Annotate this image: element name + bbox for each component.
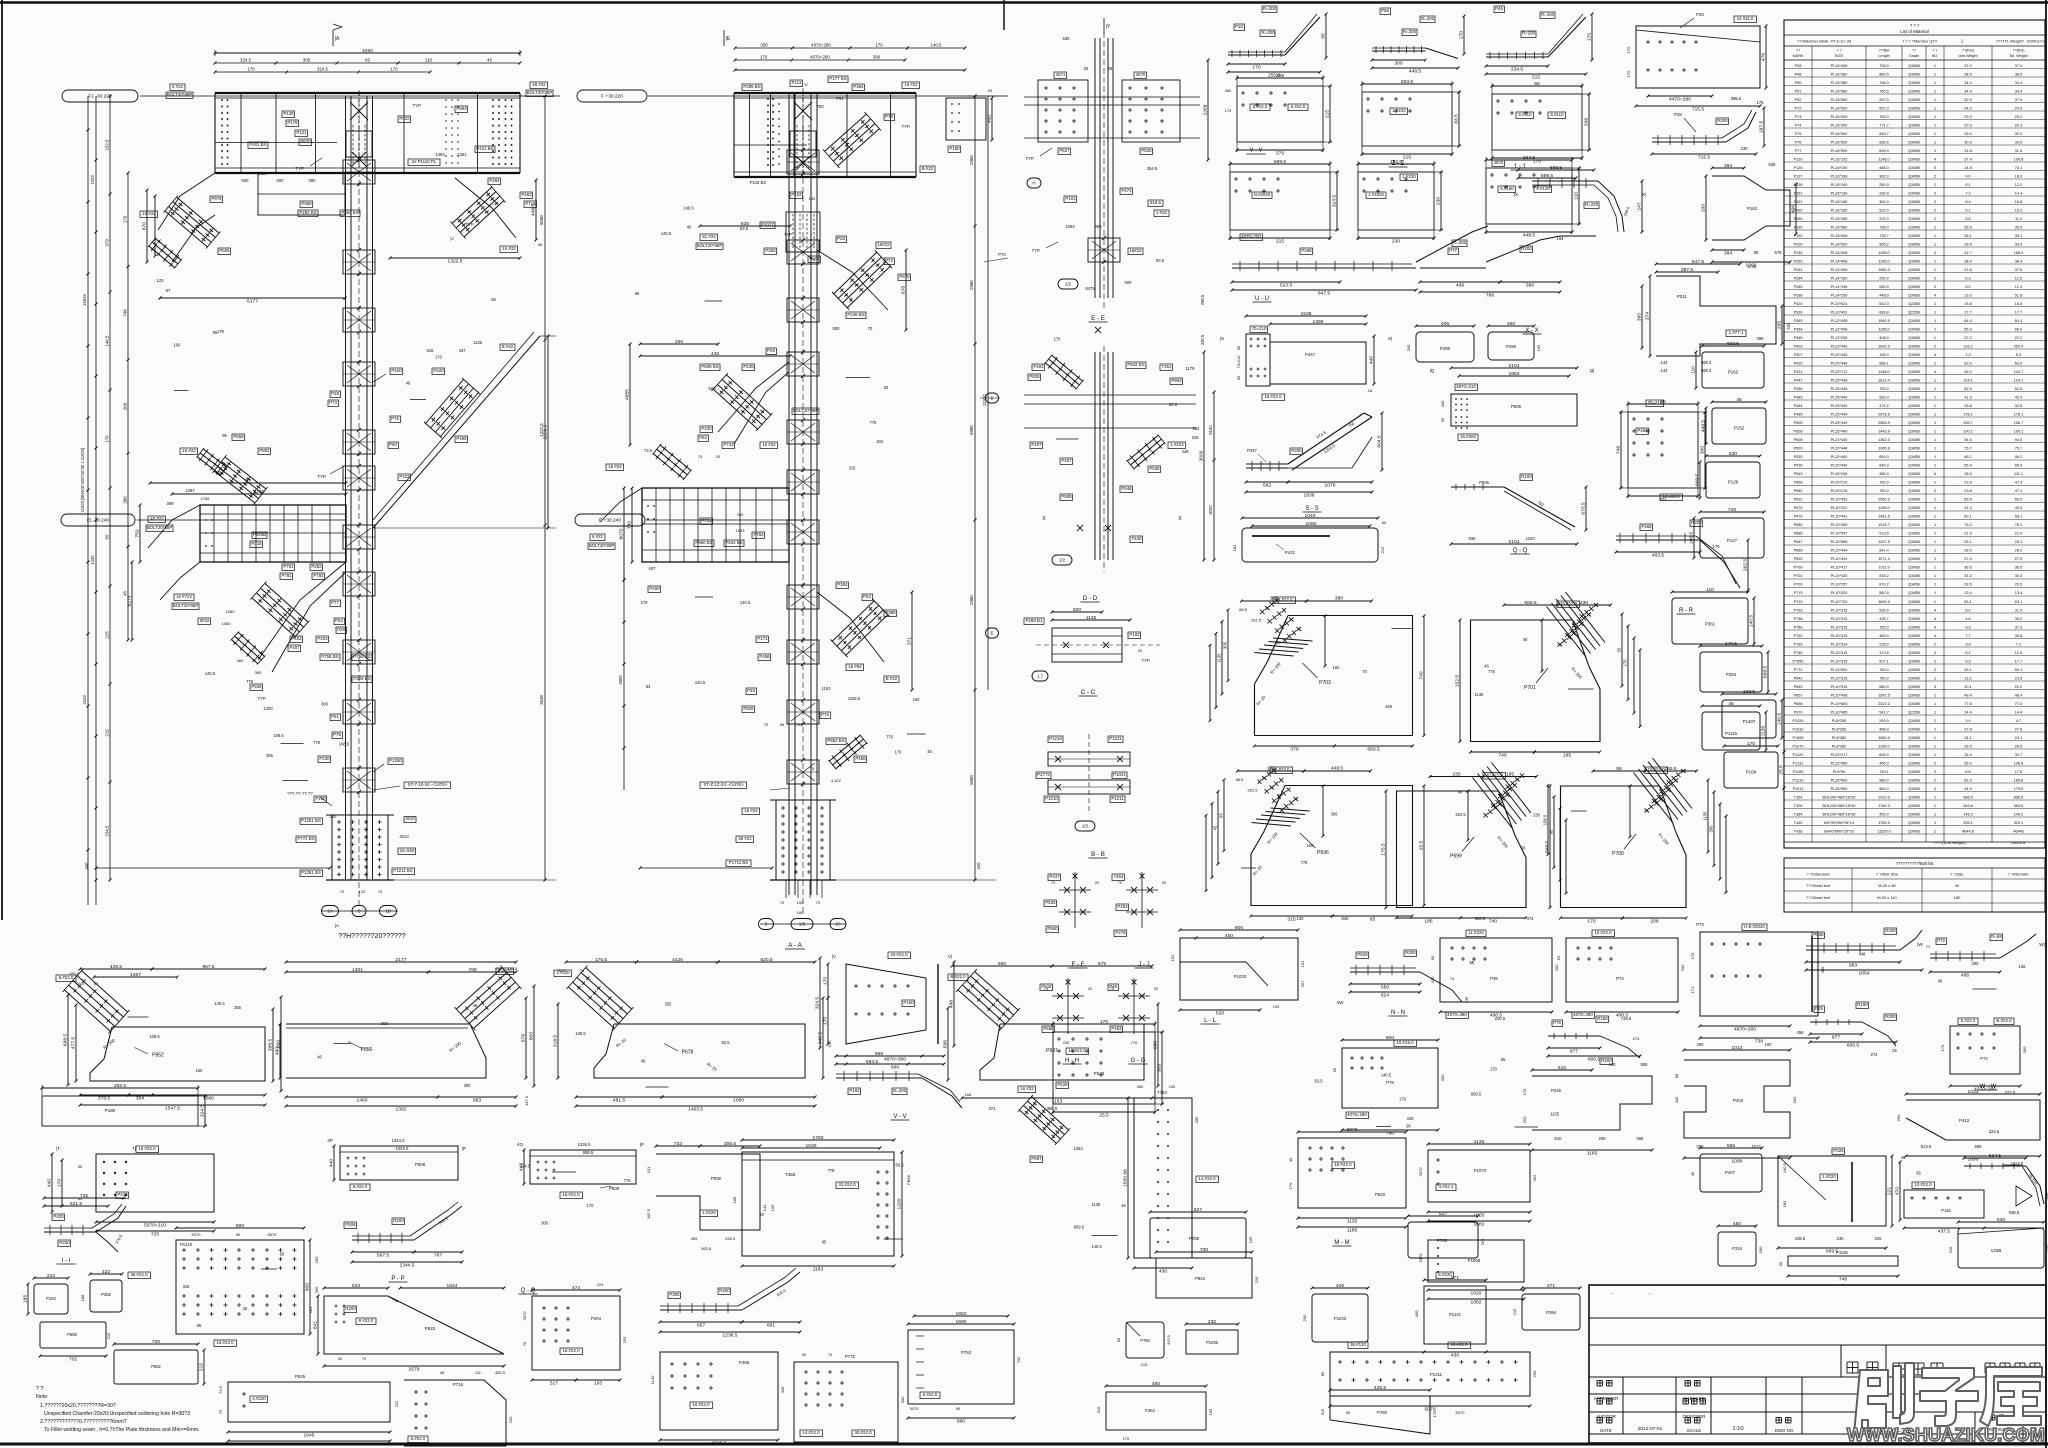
svg-text:P605: P605: [219, 248, 230, 253]
svg-text:P285 BS: P285 BS: [743, 84, 760, 89]
svg-text:1780: 1780: [254, 489, 265, 495]
svg-text:329.1: 329.1: [2014, 821, 2024, 825]
svg-text:31.9: 31.9: [2015, 609, 2022, 613]
svg-text:P407: P407: [1725, 1170, 1736, 1175]
svg-text:1: 1: [1934, 583, 1936, 587]
svg-text:845.5: 845.5: [818, 1032, 824, 1045]
svg-text:2: 2: [1934, 183, 1936, 187]
svg-text:100: 100: [1765, 1042, 1773, 1047]
svg-text:Q345B: Q345B: [1908, 438, 1920, 442]
P180 wide plate: [42, 1096, 198, 1126]
svg-text:305: 305: [303, 58, 311, 63]
svg-text:DATE: DATE: [1600, 1428, 1611, 1433]
svg-text:P1218: P1218: [1049, 736, 1062, 741]
svg-text:170: 170: [895, 750, 903, 755]
svg-text:PL20*215: PL20*215: [1831, 489, 1848, 493]
svg-text:Q345B: Q345B: [1908, 702, 1920, 706]
svg-text:65: 65: [1617, 647, 1622, 652]
svg-text:P690: P690: [1794, 557, 1803, 561]
svg-text:P163: P163: [1747, 206, 1758, 211]
svg-text:BOLT20*88P: BOLT20*88P: [589, 543, 615, 548]
svg-text:4070: 4070: [1136, 72, 1146, 77]
svg-text:P978: P978: [211, 196, 222, 201]
svg-text:16.#200: 16.#200: [1460, 434, 1476, 439]
svg-text:P763: P763: [1794, 643, 1803, 647]
svg-text:1918.7: 1918.7: [1878, 523, 1890, 527]
svg-text:P762: P762: [1794, 634, 1803, 638]
svg-text:1547.5: 1547.5: [165, 1106, 180, 1112]
svg-text:65: 65: [105, 534, 110, 539]
svg-text:PL16*380: PL16*380: [1831, 226, 1848, 230]
svg-text:215: 215: [1325, 110, 1331, 118]
svg-text:P852: P852: [152, 1053, 164, 1059]
svg-text:230: 230: [1392, 239, 1400, 245]
svg-text:253: 253: [622, 1336, 627, 1343]
svg-text:T364: T364: [1794, 813, 1803, 817]
svg-text:46: 46: [1484, 664, 1489, 669]
svg-text:27.9: 27.9: [1964, 557, 1971, 561]
svg-text:46: 46: [538, 242, 543, 247]
svg-text:448.5: 448.5: [1409, 69, 1422, 75]
svg-text:P495: P495: [456, 436, 467, 441]
svg-text:435.7: 435.7: [1879, 617, 1889, 621]
svg-text:90: 90: [236, 1232, 241, 1237]
svg-text:222: 222: [47, 1273, 55, 1279]
svg-text:5.#110: 5.#110: [1550, 112, 1564, 117]
svg-text:95: 95: [1549, 829, 1554, 834]
S-S view: [1246, 463, 1288, 465]
svg-text:1165.0: 1165.0: [1878, 745, 1889, 749]
svg-text:??H??????20??????: ??H??????20??????: [338, 933, 405, 940]
svg-text:R200: R200: [1521, 246, 1532, 251]
svg-text:Q345B: Q345B: [1908, 64, 1920, 68]
parts list table: [1784, 20, 2045, 848]
svg-text:16.#22.0: 16.#22.0: [216, 1340, 234, 1345]
svg-text:P1131: P1131: [1793, 762, 1804, 766]
svg-text:P320: P320: [1794, 302, 1803, 306]
svg-text:??: ??: [1796, 49, 1800, 53]
svg-text:31.3: 31.3: [1964, 506, 1971, 510]
svg-text:360: 360: [1637, 313, 1643, 321]
svg-text:215: 215: [1141, 1362, 1148, 1367]
svg-text:362.0: 362.0: [1879, 175, 1889, 179]
svg-text:P942 BS: P942 BS: [725, 540, 742, 545]
svg-text:170: 170: [1225, 108, 1232, 113]
svg-text:T361: T361: [1161, 364, 1172, 369]
svg-text:3070: 3070: [522, 1311, 527, 1321]
svg-text:P58: P58: [1381, 8, 1389, 13]
svg-text:34.4: 34.4: [2015, 81, 2022, 85]
svg-text:P73: P73: [1795, 115, 1802, 119]
svg-text:262.5: 262.5: [1743, 559, 1749, 572]
svg-text:1323: 1323: [90, 175, 95, 185]
svg-text:Q345B: Q345B: [1908, 200, 1920, 204]
svg-text:P772 BS: P772 BS: [297, 836, 314, 841]
elev1 top-left diagonal braces: [177, 197, 220, 233]
svg-text:? ?: ? ?: [1836, 49, 1841, 53]
svg-text:1A: 1A: [327, 909, 334, 914]
svg-text:16 #22: 16 #22: [142, 211, 156, 216]
svg-text:983: 983: [473, 1098, 481, 1104]
svg-text:736.0: 736.0: [1879, 226, 1889, 230]
svg-text:4.#220: 4.#220: [252, 1396, 266, 1401]
svg-text:P465: P465: [739, 1360, 750, 1365]
svg-text:??(KG): ??(KG): [1962, 49, 1974, 53]
svg-text:1760.0: 1760.0: [1878, 821, 1890, 825]
svg-text:35.0: 35.0: [1964, 762, 1971, 766]
svg-text:S|: S|: [1388, 336, 1392, 341]
svg-text:4: 4: [1934, 251, 1936, 255]
svg-text:2: 2: [1934, 762, 1936, 766]
svg-text:P785: P785: [1189, 1236, 1200, 1241]
svg-text:669.5: 669.5: [1763, 666, 1769, 679]
svg-text:5: 5: [1934, 166, 1936, 170]
svg-text:P753: P753: [1794, 609, 1803, 613]
svg-text:11.8: 11.8: [1964, 677, 1971, 681]
svg-text:144: 144: [762, 1204, 767, 1211]
svg-text:? ?/Qty.: ? ?/Qty.: [1950, 872, 1964, 877]
svg-text:? ?/Bolt Size: ? ?/Bolt Size: [1876, 872, 1899, 877]
svg-text:Q345B: Q345B: [1908, 762, 1920, 766]
svg-text:1060.0: 1060.0: [1878, 319, 1890, 323]
svg-text:1: 1: [1934, 532, 1936, 536]
svg-text:762.0: 762.0: [1879, 626, 1889, 630]
O-O bent piece: [660, 1309, 742, 1311]
svg-text:P421 BS: P421 BS: [476, 146, 493, 151]
svg-text:10.#22.0: 10.#22.0: [1914, 1182, 1932, 1187]
svg-text:P701: P701: [1524, 685, 1536, 691]
svg-text:25.5: 25.5: [1779, 765, 1785, 775]
svg-text:185: 185: [1424, 919, 1432, 925]
svg-text:P420: P420: [701, 426, 712, 431]
svg-text:520: 520: [1216, 1011, 1224, 1017]
svg-text:1: 1: [1934, 702, 1936, 706]
elevation view 1 - column XT-Z-1C-34: [62, 90, 138, 102]
svg-text:20: 20: [1154, 987, 1158, 991]
svg-text:PL16*165: PL16*165: [1831, 209, 1848, 213]
svg-text:29.3: 29.3: [1964, 115, 1971, 119]
svg-text:P180: P180: [949, 146, 960, 151]
svg-text:82.9: 82.9: [1964, 779, 1971, 783]
svg-text:470: 470: [1430, 976, 1435, 983]
svg-text:40: 40: [802, 1352, 807, 1357]
svg-text:215: 215: [105, 729, 110, 737]
svg-text:PB46: PB46: [906, 1174, 911, 1185]
svg-text:2: 2: [1934, 668, 1936, 672]
svg-text:5.3: 5.3: [2016, 353, 2021, 357]
svg-text:16 #22: 16 #22: [744, 808, 758, 813]
svg-text:224: 224: [597, 1282, 604, 1287]
svg-text:67: 67: [166, 288, 171, 293]
svg-text:235.0: 235.0: [1879, 643, 1889, 647]
svg-text:105.8: 105.8: [2014, 762, 2024, 766]
svg-text:Q345B: Q345B: [1908, 277, 1920, 281]
elev1 lower frame lines: [96, 867, 330, 869]
svg-text:P407: P407: [1031, 442, 1042, 447]
svg-text:P509: P509: [609, 1186, 620, 1191]
svg-text:448.0: 448.0: [1879, 294, 1889, 298]
svg-text:P758: P758: [1794, 617, 1803, 621]
svg-text:800.5: 800.5: [1847, 1043, 1860, 1049]
svg-text:370.8: 370.8: [1879, 651, 1889, 655]
svg-text:P315: P315: [251, 541, 262, 546]
svg-text:775: 775: [886, 735, 894, 740]
svg-text:1: 1: [1934, 336, 1936, 340]
svg-text:623: 623: [352, 1283, 360, 1289]
svg-text:P506: P506: [743, 706, 754, 711]
svg-text:P28: P28: [337, 627, 345, 632]
svg-text:40 #22: 40 #22: [150, 516, 164, 521]
svg-text:PL10*455: PL10*455: [1831, 523, 1848, 527]
svg-text:P284: P284: [1794, 277, 1803, 281]
svg-text:1: 1: [1934, 694, 1936, 698]
svg-text:38.5: 38.5: [1964, 73, 1971, 77]
svg-text:4: 4: [1934, 158, 1936, 162]
svg-text:250: 250: [1522, 1116, 1527, 1123]
svg-text:34.4: 34.4: [2015, 90, 2022, 94]
svg-text:379: 379: [1290, 747, 1298, 753]
F-F J-J star sections: [1074, 872, 1076, 928]
svg-text:153.5: 153.5: [69, 971, 80, 976]
svg-text:P420: P420: [53, 1214, 64, 1219]
svg-text:PL12*408: PL12*408: [1831, 328, 1848, 332]
svg-text:527.1: 527.1: [1879, 660, 1889, 664]
svg-text:274: 274: [1633, 1036, 1640, 1041]
svg-text:124.1: 124.1: [1963, 379, 1973, 383]
svg-text:1: 1: [1934, 813, 1936, 817]
svg-text:1344.5: 1344.5: [392, 1138, 405, 1143]
svg-text:16 #722: 16 #722: [176, 594, 192, 599]
svg-text:1080: 1080: [226, 609, 236, 614]
svg-text:527: 527: [1194, 1207, 1202, 1213]
svg-text:18.#22.0: 18.#22.0: [1264, 394, 1282, 399]
svg-text:P1210: P1210: [1793, 779, 1804, 783]
svg-text:558: 558: [1975, 1144, 1983, 1149]
svg-text:P505: P505: [1794, 421, 1803, 425]
svg-text:90: 90: [956, 1406, 961, 1411]
svg-text:540: 540: [1342, 916, 1350, 921]
svg-text:686.5: 686.5: [1963, 796, 1973, 800]
svg-text:440: 440: [84, 862, 89, 870]
svg-text:P731: P731: [701, 518, 712, 523]
svg-text:300: 300: [1820, 966, 1825, 973]
svg-text:16.#22.0: 16.#22.0: [1662, 494, 1680, 499]
svg-text:1040: 1040: [1305, 513, 1316, 519]
svg-text:725: 725: [151, 1232, 159, 1238]
svg-text:PL16*165: PL16*165: [1831, 217, 1848, 221]
svg-text:P1030: P1030: [1234, 974, 1247, 979]
svg-text:1 - 1: 1 - 1: [1514, 164, 1527, 170]
svg-text:635: 635: [1769, 162, 1777, 167]
svg-text:1460: 1460: [357, 1098, 368, 1104]
P753 plate: [908, 1330, 1014, 1404]
svg-text:877: 877: [1832, 1035, 1840, 1041]
svg-text:63.1: 63.1: [2015, 600, 2022, 604]
svg-text:Q345B: Q345B: [1908, 362, 1920, 366]
svg-text:PL16*300: PL16*300: [1831, 243, 1848, 247]
svg-text:Q345B: Q345B: [1908, 149, 1920, 153]
svg-text:555: 555: [1637, 1136, 1645, 1141]
svg-text:1: 1: [1934, 557, 1936, 561]
svg-text:P458: P458: [1641, 524, 1652, 529]
svg-text:10603.8: 10603.8: [2011, 840, 2026, 845]
svg-text:668: 668: [875, 1051, 883, 1057]
svg-text:28.0: 28.0: [2015, 549, 2022, 553]
svg-text:1: 1: [1934, 149, 1936, 153]
svg-text:274: 274: [1871, 1052, 1879, 1057]
svg-text:P765b: P765b: [1793, 660, 1804, 664]
svg-text:XT-7-10-34 -<1476>: XT-7-10-34 -<1476>: [408, 782, 448, 787]
svg-text:1135: 1135: [1703, 811, 1708, 821]
svg-text:1: 1: [1934, 396, 1936, 400]
svg-text:51.8: 51.8: [2015, 294, 2022, 298]
svg-text:380.5: 380.5: [1475, 916, 1486, 921]
svg-text:290: 290: [1406, 344, 1411, 351]
svg-text:588.1: 588.1: [1879, 362, 1889, 366]
svg-text:4855: 4855: [625, 389, 631, 400]
svg-text:P75: P75: [333, 732, 341, 737]
svg-text:46: 46: [1523, 637, 1528, 642]
svg-text:900: 900: [529, 1032, 535, 1040]
svg-text:860.0: 860.0: [1879, 787, 1889, 791]
svg-text:R=200: R=200: [1263, 6, 1277, 11]
svg-text:45: 45: [1690, 1171, 1695, 1176]
svg-text:P72: P72: [1795, 107, 1802, 111]
svg-text:B #22: B #22: [502, 344, 514, 349]
svg-text:P622: P622: [425, 1326, 436, 1331]
svg-text:P402: P402: [291, 636, 302, 641]
svg-text:1065.8: 1065.8: [1878, 447, 1890, 451]
svg-text:PL10*315: PL10*315: [1831, 634, 1848, 638]
svg-text:215: 215: [1512, 1308, 1517, 1315]
elev2 column base: [776, 800, 830, 880]
svg-text:P560: P560: [1794, 472, 1803, 476]
svg-text:93: 93: [884, 385, 889, 390]
svg-text:32.9: 32.9: [1964, 98, 1971, 102]
svg-text:5560: 5560: [969, 775, 974, 785]
svg-text:1: 1: [1934, 328, 1936, 332]
svg-text:371: 371: [907, 637, 913, 645]
svg-text:Q345B: Q345B: [1908, 175, 1920, 179]
svg-text:1: 1: [1934, 753, 1936, 757]
svg-text:108.5: 108.5: [1743, 689, 1756, 695]
svg-text:B.#22.0: B.#22.0: [1996, 1018, 2012, 1023]
svg-text:43a: 43a: [495, 966, 502, 971]
svg-text:38.4: 38.4: [1964, 260, 1971, 264]
svg-text:PL10*600: PL10*600: [1831, 702, 1848, 706]
svg-text:1.#223: 1.#223: [1170, 442, 1184, 447]
svg-text:2: 2: [1934, 277, 1936, 281]
svg-text:760: 760: [737, 512, 744, 517]
svg-text:330: 330: [1680, 964, 1685, 971]
svg-text:Grade: Grade: [1909, 54, 1919, 58]
svg-text:PL22*450: PL22*450: [1831, 762, 1848, 766]
svg-text:P1211: P1211: [1111, 796, 1124, 801]
svg-text:PL16*199: PL16*199: [1831, 192, 1848, 196]
P785 P363 plates near title: [1150, 1218, 1246, 1258]
svg-text:1: 1: [1934, 319, 1936, 323]
svg-text:865.2: 865.2: [1879, 243, 1889, 247]
svg-text:P842 BS: P842 BS: [1127, 362, 1144, 367]
svg-text:1/2: 1/2: [799, 922, 806, 927]
svg-text:300: 300: [2022, 1046, 2027, 1053]
svg-text:Length: Length: [1878, 54, 1889, 58]
svg-text:2: 2: [1934, 779, 1936, 783]
svg-text:P529: P529: [1794, 447, 1803, 451]
svg-text:988.5: 988.5: [583, 1150, 594, 1155]
svg-text:Q345B: Q345B: [1908, 787, 1920, 791]
svg-text:PL14*196: PL14*196: [1831, 285, 1848, 289]
svg-text:PL25*448: PL25*448: [1831, 379, 1848, 383]
svg-text:123: 123: [157, 278, 165, 283]
svg-text:P28: P28: [837, 236, 845, 241]
svg-text:|E: |E: [726, 36, 731, 42]
svg-text:P77: P77: [1795, 149, 1802, 153]
svg-text:562: 562: [1263, 483, 1271, 489]
svg-text:P407: P407: [1061, 458, 1072, 463]
svg-text:P558: P558: [67, 1332, 77, 1337]
svg-text:P1068: P1068: [1468, 1258, 1481, 1263]
svg-text:PL10*441: PL10*441: [1831, 515, 1848, 519]
svg-text:R=200: R=200: [1522, 31, 1536, 36]
svg-text:31.8: 31.8: [1964, 149, 1971, 153]
svg-text:1020: 1020: [1471, 1291, 1482, 1297]
svg-text:6.#22.0: 6.#22.0: [923, 1392, 938, 1397]
svg-text:|Y: |Y: [1106, 24, 1111, 30]
svg-text:P675: P675: [1794, 506, 1803, 510]
svg-text:46: 46: [687, 225, 692, 230]
svg-text:1.#77.1: 1.#77.1: [1729, 330, 1744, 335]
svg-text:387.5: 387.5: [1681, 267, 1694, 273]
svg-text:176.5: 176.5: [507, 966, 518, 971]
svg-text:16 #22: 16 #22: [502, 246, 516, 251]
svg-text:3.6: 3.6: [1965, 643, 1970, 647]
svg-text:185.8: 185.8: [2014, 779, 2024, 783]
svg-text:P505: P505: [1479, 480, 1489, 485]
svg-text:P526: P526: [1094, 1071, 1105, 1076]
svg-text:P152: P152: [1734, 426, 1745, 431]
svg-text:324.5: 324.5: [240, 58, 252, 63]
svg-text:P568: P568: [233, 434, 244, 439]
svg-text:PL12*408: PL12*408: [1831, 319, 1848, 323]
svg-text:P101: P101: [1065, 196, 1076, 201]
svg-text:17.7: 17.7: [2015, 660, 2022, 664]
svg-text:P713: P713: [1794, 591, 1803, 595]
svg-text:21.9: 21.9: [2015, 532, 2022, 536]
svg-text:126.2: 126.2: [1963, 345, 1973, 349]
svg-text:PL20*448: PL20*448: [1831, 362, 1848, 366]
P245 stepped plate: [1532, 1076, 1652, 1130]
svg-text:46446: 46446: [2013, 830, 2024, 834]
svg-text:BOLT20*88P: BOLT20*88P: [793, 408, 819, 413]
svg-text:Q345B: Q345B: [1908, 813, 1920, 817]
svg-text:8.4: 8.4: [1965, 200, 1970, 204]
svg-text:740: 740: [1728, 507, 1736, 513]
svg-text:440: 440: [47, 1179, 53, 1187]
svg-text:P455: P455: [855, 756, 866, 761]
svg-text:170: 170: [760, 55, 768, 60]
wing view 3 P678: [594, 1024, 805, 1078]
svg-text:4070=280: 4070=280: [1573, 1012, 1593, 1017]
svg-text:P525: P525: [295, 1374, 306, 1379]
svg-text:P171: P171: [757, 636, 768, 641]
svg-text:29.3: 29.3: [2015, 124, 2022, 128]
svg-text:841: 841: [313, 1321, 319, 1329]
svg-text:110: 110: [1691, 366, 1697, 374]
elev1 mid clusters: [390, 368, 403, 375]
svg-text:22.2: 22.2: [1964, 336, 1971, 340]
svg-text:P716: P716: [453, 1382, 464, 1387]
